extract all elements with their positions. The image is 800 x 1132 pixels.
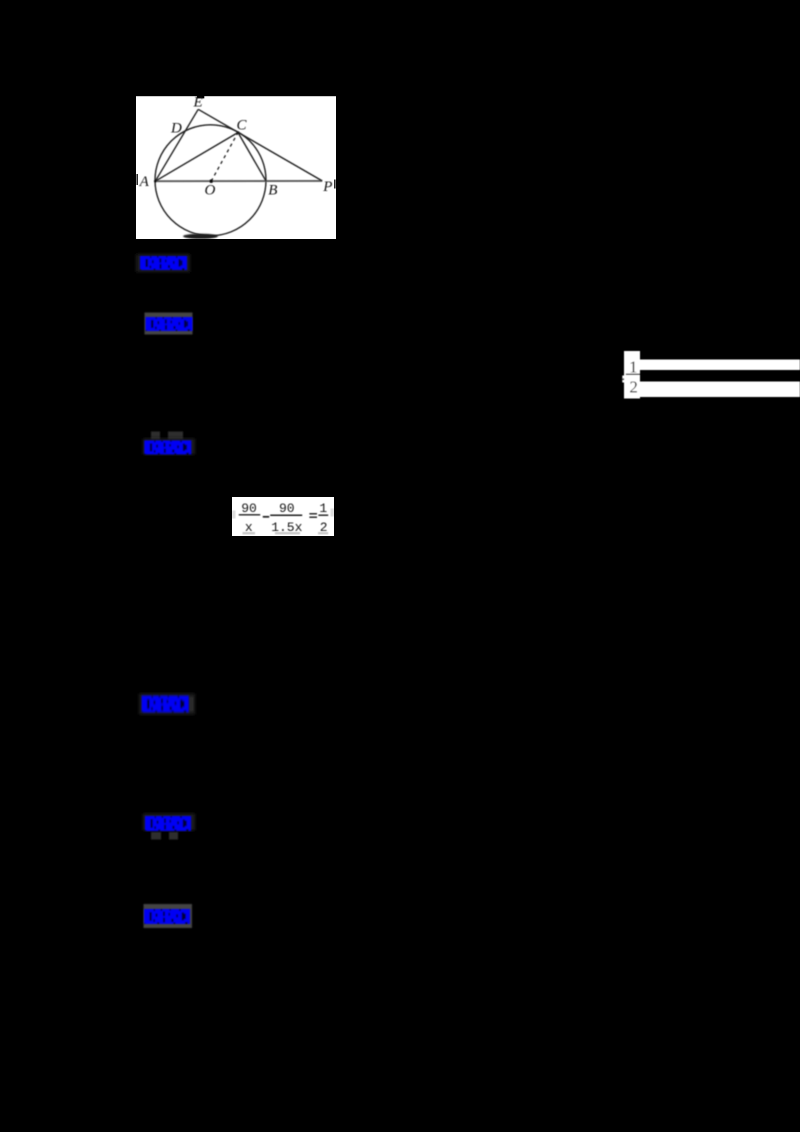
wire line A-P (diameter extended) xyxy=(155,180,322,182)
shared defs: blur filters + blue label glyph-blob group xyxy=(0,0,1,1)
figure white background xyxy=(136,96,336,239)
light underline artifacts xyxy=(243,532,256,534)
dashed line O-C xyxy=(211,133,238,182)
fraction numerals xyxy=(629,358,638,397)
inline fraction 1/2 with white bars to page edge xyxy=(616,346,800,404)
blue label 6 (jieda) with gray box xyxy=(136,898,200,936)
svg-text:A: A xyxy=(139,174,150,190)
svg-text:E: E xyxy=(193,95,203,111)
geometry figure image (white box) xyxy=(136,95,336,239)
svg-text:90: 90 xyxy=(279,501,295,516)
svg-text:1: 1 xyxy=(319,501,327,516)
white bar top xyxy=(640,360,800,371)
node A dot xyxy=(154,180,157,183)
blue label 2 (fenxi) with gray box xyxy=(138,306,200,340)
wire line E-P xyxy=(198,109,322,181)
comma notch xyxy=(622,376,624,383)
equals sign xyxy=(309,513,317,515)
fraction bar 2 xyxy=(270,514,302,516)
bottom smudge on circle xyxy=(183,234,218,239)
minus sign xyxy=(263,516,269,518)
comma dot xyxy=(622,378,624,380)
svg-text:B: B xyxy=(268,183,277,199)
fraction bar 3 xyxy=(318,514,328,516)
svg-text:90: 90 xyxy=(241,501,257,516)
equation image 90/x - 90/1.5x = 1/2 (white box) xyxy=(232,497,334,536)
svg-text:D: D xyxy=(170,120,182,136)
blue label 5 (fenxi) with artifact marks below xyxy=(138,810,200,844)
fraction bar 1 xyxy=(239,514,260,516)
blue label 4 (dianping) xyxy=(136,689,198,719)
circle O xyxy=(155,125,266,236)
blue label 3 (jieda) with artifact marks above xyxy=(138,424,200,460)
top edge black mark above E xyxy=(197,95,204,98)
node O dot xyxy=(209,179,213,183)
fraction bar xyxy=(626,373,640,375)
svg-text:O: O xyxy=(205,182,216,198)
fraction white box xyxy=(624,351,640,399)
white bar bottom xyxy=(640,382,800,398)
wire line C-B xyxy=(238,133,266,182)
blue label 1 (dianping) xyxy=(134,250,194,276)
svg-text:P: P xyxy=(322,179,332,195)
wire line A-C xyxy=(155,133,238,182)
left edge tick xyxy=(136,174,138,185)
right edge tick xyxy=(334,180,336,189)
svg-text:2: 2 xyxy=(629,378,638,397)
wire line A-E xyxy=(155,109,198,181)
svg-text:C: C xyxy=(237,117,248,133)
